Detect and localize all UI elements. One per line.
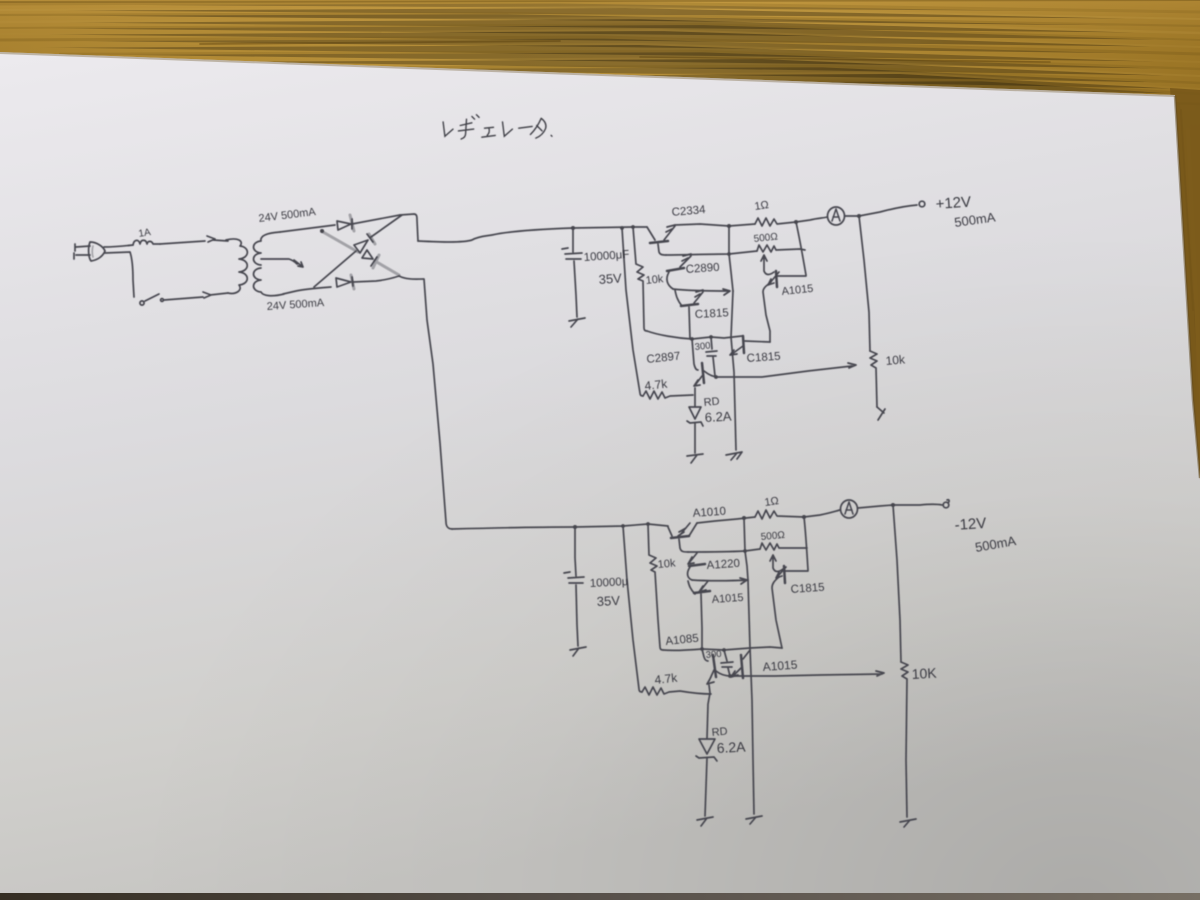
node -12V sense junction — [891, 503, 895, 507]
wire lower dc rail — [452, 524, 668, 529]
svg-text:4.7k: 4.7k — [654, 671, 679, 687]
svg-text:1Ω: 1Ω — [764, 495, 780, 509]
svg-text:A1010: A1010 — [692, 506, 726, 520]
switch S1 — [140, 294, 164, 305]
svg-text:300: 300 — [705, 649, 722, 661]
svg-text:6.2A: 6.2A — [716, 738, 746, 756]
node lower cap junction — [573, 525, 577, 529]
wire secondary to diode D1 — [280, 225, 335, 232]
terminal -12V — [947, 500, 949, 503]
transistor Q6 C2897 — [692, 339, 704, 386]
transistor Q5 C1815 (current limiter) — [730, 336, 744, 355]
transformer T1 primary — [226, 239, 247, 293]
node lower 4.7k tap — [621, 524, 625, 528]
transistor Q3 C1815 — [675, 290, 703, 339]
resistor R3 1 ohm — [755, 218, 796, 226]
wire negative feed from rectifier down to lower rail — [399, 276, 452, 529]
svg-text:A1015: A1015 — [762, 658, 798, 674]
wire plug to fuse — [104, 245, 133, 247]
node lower pot feed junction — [802, 515, 806, 519]
ground for ZD1 — [687, 454, 703, 463]
diode D4 on falling diagonal — [362, 250, 377, 266]
transformer T1 secondary upper — [254, 232, 281, 265]
wire base rail (third rail) — [647, 331, 742, 339]
node lower 300 cap to sense line — [728, 674, 732, 678]
diode D3 on rising diagonal — [314, 215, 402, 287]
svg-text:10k: 10k — [645, 273, 664, 287]
svg-text:-12V: -12V — [954, 515, 987, 534]
wire dc positive rail to regulator — [418, 227, 647, 242]
diode D4 pencil body — [373, 255, 379, 268]
svg-text:A1015: A1015 — [711, 592, 744, 606]
wire D1 to + node — [352, 215, 400, 224]
table edge dark strip at bottom — [0, 893, 1200, 900]
diode D3 pencil cathode bar — [369, 234, 375, 244]
wire secondary to diode D2 — [283, 287, 331, 294]
pot wiper arrow — [761, 255, 774, 275]
transistor Q10 C1815 lower — [772, 566, 808, 648]
wire switch to transformer — [164, 292, 228, 300]
title regulator (katakana, hand strokes) — [443, 115, 552, 139]
plug body pencil shading — [91, 246, 94, 257]
wire lower sense line with arrow to 10k — [716, 671, 884, 676]
svg-text:RD: RD — [703, 396, 720, 409]
ground for ZD2 — [697, 817, 713, 826]
svg-text:10000μ: 10000μ — [590, 576, 629, 590]
transistor Q4 A1015 — [763, 271, 806, 342]
transistor Q12 A1015 lower current limiter — [731, 650, 750, 678]
wire lower third rail — [663, 647, 782, 650]
resistor R2 4.7k — [643, 391, 693, 399]
transformer T1 secondary lower — [254, 268, 285, 296]
resistor R5 10k lower vertical — [648, 524, 663, 650]
svg-text:35V: 35V — [598, 270, 622, 287]
node 10k tap junction — [620, 226, 624, 230]
ground for R8 — [900, 819, 916, 827]
node A junction — [320, 229, 324, 233]
node third rail / 300 cap — [709, 335, 713, 339]
node 4.7k tap junction — [631, 225, 635, 229]
wire output sense vertical — [859, 216, 870, 351]
node pot feed junction — [794, 220, 798, 224]
transistor Q1 C2334 — [647, 225, 675, 255]
resistor R4 10k output — [870, 351, 877, 407]
wire emitter rail to 1ohm — [675, 224, 755, 226]
diode D1 pencil cathode bar — [350, 215, 354, 231]
fuse F1 1A — [133, 240, 160, 245]
capacitor C4 300 lower — [721, 650, 733, 676]
zener ZD2 RD 6.2A lower — [696, 685, 717, 816]
svg-text:1A: 1A — [138, 227, 152, 240]
wire rail down to 4.7k (left vertical) — [622, 228, 643, 396]
wire ammeter to -12V terminal — [858, 504, 942, 508]
potentiometer VR2 500ohm lower — [760, 543, 807, 550]
diode D2 pencil cathode bar — [351, 275, 354, 289]
ground for C3 — [570, 647, 586, 656]
svg-text:A1220: A1220 — [706, 558, 740, 572]
transistor Q2 C2890 — [667, 254, 691, 289]
wire A1015 base to Q5 collector bus — [745, 341, 770, 342]
wire loop vertical to ground (x 731) — [731, 291, 736, 450]
ammeter M2 — [841, 500, 858, 518]
svg-text:1Ω: 1Ω — [754, 199, 770, 213]
wire collector loop of Q2 — [673, 289, 730, 295]
AC plug P1 — [74, 242, 105, 261]
wire ammeter to +12V terminal — [845, 205, 917, 216]
wire sense line with arrow to 10k — [704, 363, 856, 377]
svg-text:+12V: +12V — [935, 194, 972, 213]
wire -12V sense vertical — [893, 505, 901, 662]
capacitor C3 10000uF 35V lower — [564, 527, 584, 646]
diode D2 — [336, 277, 353, 287]
svg-text:C2890: C2890 — [685, 262, 720, 276]
node filter cap junction — [571, 226, 575, 230]
node rail2 feed junction — [727, 224, 731, 228]
ground for x750 wire — [746, 816, 762, 824]
resistor R6 4.7k lower — [642, 687, 711, 695]
svg-text:10k: 10k — [885, 352, 906, 368]
node lower rail2 feed junction — [742, 516, 746, 520]
ground tick for R4 — [877, 407, 885, 420]
node lower third rail / Q9 base — [700, 647, 704, 651]
svg-text:C1815: C1815 — [695, 307, 729, 321]
svg-text:C1815: C1815 — [790, 582, 825, 596]
svg-text:300: 300 — [694, 340, 711, 353]
node 300 cap to sense line — [714, 375, 718, 379]
capacitor C2 300 — [706, 337, 717, 376]
wire 1ohm to ammeter lower — [804, 510, 840, 517]
wire rail1 down to A1015 emitter — [796, 222, 806, 275]
svg-text:10k: 10k — [657, 557, 676, 571]
right edge wood wedge darkening — [1170, 88, 1200, 500]
wire collector loop of Q8 — [692, 578, 747, 584]
wire rail1 to rail2 to loop (x 729) — [729, 226, 733, 291]
resistor R7 1 ohm lower — [755, 510, 804, 519]
paper top edge shadow — [0, 53, 1175, 96]
wire lower loop vertical to ground (x 750) — [748, 580, 754, 814]
zener ZD1 RD 6.2A — [687, 388, 703, 453]
node rail2 junction — [727, 252, 731, 256]
wire lower rail1 down to C1815 emitter — [804, 517, 808, 570]
terminal +12V — [919, 201, 925, 207]
wire second rail (Q1 base bus) — [666, 251, 757, 255]
wire 1ohm to ammeter — [796, 217, 827, 222]
ground for x731 wire — [726, 452, 742, 460]
node third rail / C1815 base — [690, 337, 694, 341]
wire lower rail1 to rail2 to loop (x 744) — [744, 518, 748, 580]
transistor Q8 A1220 — [688, 553, 705, 580]
svg-text:10K: 10K — [911, 665, 937, 682]
node output junction — [857, 214, 861, 218]
transistor Q11 A1085 — [702, 649, 716, 684]
wire fuse to transformer — [160, 236, 228, 244]
node lower third rail / 300 cap — [722, 648, 726, 652]
svg-text:500Ω: 500Ω — [760, 530, 786, 543]
wire emitter rail to 1ohm lower — [697, 517, 755, 523]
svg-text:4.7k: 4.7k — [644, 377, 669, 393]
wire lower second rail — [688, 549, 760, 552]
resistor R8 10k lower output — [901, 662, 908, 817]
diode D1 — [337, 219, 352, 230]
node lower 10k tap — [646, 522, 650, 526]
wire pencil diagonal top node to bottom node — [323, 232, 399, 275]
capacitor C1 10000uF 35V — [562, 228, 582, 317]
ammeter M1 — [828, 207, 845, 225]
wire plug down branch — [105, 252, 134, 297]
wire rail down to 4.7k lower — [623, 526, 642, 692]
wire + node corner down to rail — [400, 214, 418, 241]
node lower rail2 junction — [743, 549, 747, 553]
potentiometer VR1 500ohm — [757, 245, 805, 252]
svg-text:RD: RD — [711, 726, 728, 739]
transformer T1 centre tap — [261, 259, 303, 267]
svg-text:C1815: C1815 — [746, 351, 781, 365]
pot wiper arrow lower — [770, 555, 783, 572]
wire D2 to - node — [353, 276, 399, 282]
ground for C1 — [569, 318, 585, 327]
svg-text:35V: 35V — [596, 593, 620, 609]
transistor Q9 A1015 lower — [688, 581, 710, 649]
svg-text:6.2A: 6.2A — [704, 409, 732, 425]
resistor R1 10k vertical — [633, 227, 647, 331]
transistor Q7 A1010 — [668, 523, 697, 552]
